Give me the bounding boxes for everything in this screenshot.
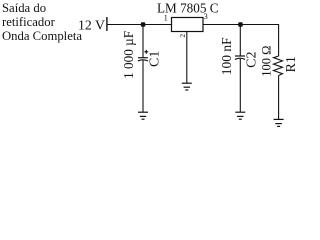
svg-text:12 V: 12 V [78, 18, 105, 33]
node input terminal [106, 17, 108, 31]
svg-text:2: 2 [178, 34, 187, 38]
resistor R1 zigzag [274, 56, 283, 76]
node junction A (C1 tap) [141, 22, 146, 27]
wire C2 down to ground [239, 59, 241, 112]
wire input to regulator pin1 [107, 24, 172, 26]
svg-text:1: 1 [164, 14, 168, 23]
wire R1 down to ground [278, 76, 280, 120]
svg-text:3: 3 [204, 12, 208, 21]
svg-text:100 nF: 100 nF [219, 37, 234, 75]
capacitor C2 plates [235, 56, 245, 59]
svg-text:C1: C1 [148, 51, 163, 67]
svg-text:C2: C2 [244, 52, 259, 68]
wire regulator pin2 down [186, 32, 188, 84]
wire C1 down to ground [142, 60, 144, 112]
svg-text:Onda Completa: Onda Completa [2, 29, 82, 43]
node junction B (C2 tap) [238, 22, 243, 27]
C1 polarity plus [144, 50, 148, 54]
svg-text:R1: R1 [284, 56, 296, 72]
svg-text:Saída do: Saída do [2, 1, 46, 15]
ground C1 [138, 112, 148, 119]
ground regulator [182, 83, 192, 90]
svg-text:1 000 µF: 1 000 µF [121, 31, 136, 79]
wire corner down to R1 [278, 24, 280, 56]
wire junction A down to C1 [142, 25, 144, 58]
wire regulator pin3 to corner [203, 24, 279, 26]
note: Saída do retificador Onda Completa [2, 1, 82, 43]
svg-text:retificador: retificador [2, 15, 56, 29]
capacitor C1 plates [138, 58, 148, 61]
wire junction B down to C2 [239, 25, 241, 57]
svg-text:100 Ω: 100 Ω [260, 46, 274, 77]
ground C2 [235, 112, 245, 119]
regulator U1 LM 7805 C box [172, 18, 204, 32]
ground R1 [274, 119, 284, 126]
